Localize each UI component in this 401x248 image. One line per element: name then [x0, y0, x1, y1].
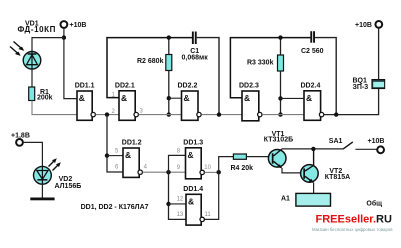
NAND gate DD2.2	[178, 82, 202, 120]
terminal +10V bottom-right	[368, 138, 385, 153]
svg-text:SA1: SA1	[329, 138, 343, 145]
NAND gate DD1.3	[177, 139, 212, 179]
svg-text:R4 20k: R4 20k	[231, 165, 254, 172]
wire C1 right down to DD2.2 output node	[197, 38, 219, 115]
svg-text:DD1.1: DD1.1	[75, 83, 95, 90]
node C2 feedback junction	[334, 112, 338, 116]
svg-text:DD2.2: DD2.2	[178, 82, 198, 89]
svg-text:DD1.2: DD1.2	[122, 140, 142, 147]
photodiode VD1	[10, 21, 56, 70]
wire VD1 to R1	[31, 69, 33, 87]
LED VD2	[34, 158, 82, 190]
wire junction down to DD1.4 inputs	[169, 172, 187, 219]
wire DD1.2 output to DD1.3	[143, 171, 186, 173]
wire R1 bottom to DD1.1 lower input	[32, 101, 77, 115]
svg-text:ЗП-3: ЗП-3	[353, 84, 369, 91]
wire DD1.1 output to DD2.1	[96, 114, 119, 116]
svg-text:DD1.4: DD1.4	[183, 186, 203, 193]
transistor VT2 KT815A	[301, 149, 351, 183]
capacitor C2 560	[301, 31, 324, 55]
node R3 bottom junction upper	[278, 96, 282, 100]
module A1	[281, 193, 331, 206]
svg-text:DD2.3: DD2.3	[239, 82, 259, 89]
terminal +1.8V	[11, 132, 30, 146]
node R3 bottom junction lower	[278, 112, 282, 116]
wire DD2.3 output to DD2.4	[262, 114, 304, 116]
svg-text:&: &	[184, 93, 190, 103]
svg-text:13: 13	[177, 212, 184, 218]
svg-text:+10В: +10В	[355, 22, 372, 29]
wire R2 to DD2.2 pin1	[169, 97, 182, 99]
wire junction up to DD1.3 pin8	[169, 155, 186, 172]
svg-text:&: &	[188, 150, 194, 160]
NAND gate DD2.3	[239, 82, 262, 121]
wire DD1.3 output to R4 junction	[205, 171, 219, 173]
svg-text:DD1.3: DD1.3	[183, 139, 203, 146]
switch SA1	[329, 138, 377, 150]
wire C2 right down to DD2.4 output node	[315, 38, 336, 114]
wire BQ1 top to +10V terminal	[378, 28, 380, 80]
svg-text:&: &	[306, 93, 312, 103]
wire DD2.2 output to DD2.3	[201, 114, 242, 116]
wire oscillator1 feedback top	[107, 38, 192, 98]
node R2 bottom junction lower	[167, 112, 171, 116]
node C1 feedback junction	[217, 112, 221, 116]
svg-text:&: &	[188, 197, 194, 207]
svg-text:10: 10	[204, 165, 211, 171]
svg-text:DD2.4: DD2.4	[301, 82, 321, 89]
sounder BQ1 ZP-3	[353, 77, 385, 91]
svg-text:FREEseller.RU: FREEseller.RU	[316, 214, 392, 226]
wire junction up to R4	[219, 157, 234, 173]
FREEseller.RU logo	[312, 214, 393, 233]
svg-text:&: &	[125, 150, 131, 160]
wire to DD1.2 pin 5	[107, 155, 123, 157]
svg-text:+10В: +10В	[368, 138, 385, 145]
svg-text:&: &	[121, 93, 127, 103]
wire oscillator2 feedback top	[230, 38, 310, 98]
node R3 top junction	[278, 35, 282, 39]
node junction at +10V branch	[62, 35, 66, 39]
NAND gate DD2.4	[301, 82, 324, 120]
svg-text:&: &	[244, 93, 250, 103]
NAND gate DD2.1	[112, 83, 144, 121]
wire DD2.4 output to BQ1	[324, 89, 379, 115]
resistor R1 200k	[29, 87, 53, 102]
capacitor C1 0.068mk	[182, 32, 209, 62]
node DD1.3/DD1.4 output junction	[217, 170, 221, 174]
wire VT2 emitter to A1	[313, 183, 315, 194]
resistor R2 680k	[137, 38, 172, 115]
NAND gate DD1.1	[75, 83, 96, 121]
svg-text:DD2.1: DD2.1	[115, 83, 135, 90]
wire junction down to DD1.2 inputs	[107, 115, 123, 172]
wire junction to VD1 top	[32, 38, 64, 52]
svg-text:КТ3102Б: КТ3102Б	[264, 136, 293, 143]
svg-text:C2 560: C2 560	[301, 48, 324, 55]
wire +1.8V to VD2	[23, 142, 42, 166]
wire DD2.1 output to DD2.2	[139, 114, 182, 116]
ground	[30, 198, 54, 201]
svg-text:R2 680k: R2 680k	[137, 58, 164, 65]
node junction DD1.2 pin5	[105, 153, 109, 157]
svg-text:КТ815А: КТ815А	[325, 174, 350, 181]
node junction below DD1.1 output	[105, 112, 109, 116]
NAND gate DD1.2	[115, 140, 148, 178]
wire R4 to VT1 base	[246, 156, 272, 158]
transistor VT1 KT3102B	[264, 131, 293, 168]
node R2 top junction	[167, 35, 171, 39]
svg-text:АЛ156Б: АЛ156Б	[55, 183, 82, 190]
terminal +10V top-right	[355, 21, 382, 29]
svg-text:12: 12	[177, 197, 184, 203]
svg-text:200k: 200k	[37, 95, 53, 102]
svg-text:ФД-10КП: ФД-10КП	[18, 25, 57, 34]
svg-text:R3 330k: R3 330k	[247, 59, 274, 66]
node R2 bottom junction upper	[167, 96, 171, 100]
NAND gate DD1.4	[177, 186, 212, 225]
wire VT1 collector to SA1	[282, 148, 343, 150]
wire VT1 emitter to VT2 base	[282, 168, 303, 173]
wire R3 to DD2.4 pin1	[281, 97, 305, 99]
svg-text:+10В: +10В	[70, 22, 87, 29]
wire to DD1.4 pin12	[169, 203, 187, 205]
svg-text:DD1, DD2 - К176ЛА7: DD1, DD2 - К176ЛА7	[81, 204, 149, 211]
resistor R3 330k	[247, 38, 284, 115]
resistor R4 20k	[231, 154, 254, 172]
svg-text:A1: A1	[281, 196, 290, 203]
terminal +10V top-left	[61, 21, 87, 29]
svg-text:Магазин бесплатных цифровых то: Магазин бесплатных цифровых товаров	[312, 227, 393, 232]
node DD1.4 pin12 junction	[166, 202, 170, 206]
svg-text:+1,8В: +1,8В	[11, 132, 30, 139]
wire VD2 to ground	[41, 184, 43, 198]
svg-text:Общ: Общ	[366, 199, 382, 207]
svg-text:0,068мк: 0,068мк	[182, 54, 209, 61]
svg-text:&: &	[79, 93, 85, 103]
wire from +10V terminal down to DD1.1 pin1	[64, 28, 77, 98]
node VT2 collector junction	[311, 147, 315, 151]
svg-text:11: 11	[205, 212, 212, 218]
node DD1.2 output junction	[166, 170, 170, 174]
wire junction down to DD1.4 output	[205, 172, 219, 219]
